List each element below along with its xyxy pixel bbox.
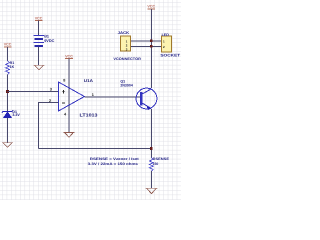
power VCC (battery positive) [35, 17, 43, 35]
svg-text:8: 8 [63, 78, 65, 82]
svg-text:3.3V: 3.3V [12, 113, 20, 117]
wire node to op-amp pin 3 [8, 91, 59, 93]
wire jack pin1 to socket pin1 [130, 40, 161, 42]
wire op-amp pin 2 to feedback [39, 103, 59, 149]
junction VCC line - wire1 [150, 40, 153, 43]
junction emitter-feedback [150, 147, 153, 150]
wire Q1 emitter to RSENSE [150, 109, 152, 158]
power VCC (top right rail) [147, 5, 155, 9]
wire op-amp output to Q1 base [84, 96, 140, 98]
svg-text:2N3904: 2N3904 [120, 84, 132, 88]
svg-text:VCC: VCC [35, 17, 43, 21]
svg-text:U1A: U1A [84, 78, 93, 83]
svg-text:LED: LED [162, 33, 170, 37]
zener diode D1 [2, 110, 20, 118]
transistor Q1 [120, 80, 157, 110]
svg-text:VCONNECTOR: VCONNECTOR [113, 57, 141, 61]
svg-text:VCC: VCC [147, 5, 155, 9]
wire jack pin2 to socket pin2 [130, 45, 161, 47]
feedback wire to emitter node [39, 148, 152, 150]
svg-text:150: 150 [153, 162, 159, 166]
wire RSENSE to ground [150, 171, 152, 188]
power VCC (op-amp pin 8) [65, 54, 73, 132]
svg-text:VCC: VCC [65, 54, 73, 58]
wire battery to ground [38, 47, 40, 65]
svg-text:JACK: JACK [118, 31, 130, 35]
svg-text:9VDC: 9VDC [44, 39, 54, 43]
op-amp U1A [49, 78, 98, 118]
wire D1 to ground [7, 118, 9, 142]
ground at left rail bottom [2, 143, 13, 148]
svg-text:3.3V / 22mA = 150 ohms: 3.3V / 22mA = 150 ohms [88, 162, 138, 166]
svg-text:SOCKET: SOCKET [160, 53, 181, 57]
svg-text:RSENSE: RSENSE [153, 157, 170, 161]
note text [88, 157, 140, 166]
svg-text:RSENSE = Vzener / Iset: RSENSE = Vzener / Iset [90, 157, 140, 161]
resistor RSENSE [149, 157, 170, 171]
junction VCC line - wire2 [150, 45, 153, 48]
svg-text:1K: 1K [10, 65, 15, 69]
svg-text:VCC: VCC [4, 43, 12, 47]
connector JACK [113, 31, 141, 61]
connector LED SOCKET [160, 33, 181, 58]
node junction on left rail [6, 90, 9, 93]
svg-text:LT1013: LT1013 [80, 113, 99, 118]
ground below battery [34, 65, 45, 70]
resistor R1 [6, 61, 15, 75]
svg-text:3: 3 [50, 87, 52, 91]
power VCC (left rail) [4, 43, 12, 61]
battery B1 [33, 34, 54, 46]
ground below RSENSE [146, 188, 158, 193]
ground at op-amp pin 4 [64, 132, 75, 137]
svg-text:B1: B1 [44, 34, 49, 38]
wire VCC to Q1 collector [150, 9, 152, 88]
wire R1 to node [7, 75, 9, 111]
